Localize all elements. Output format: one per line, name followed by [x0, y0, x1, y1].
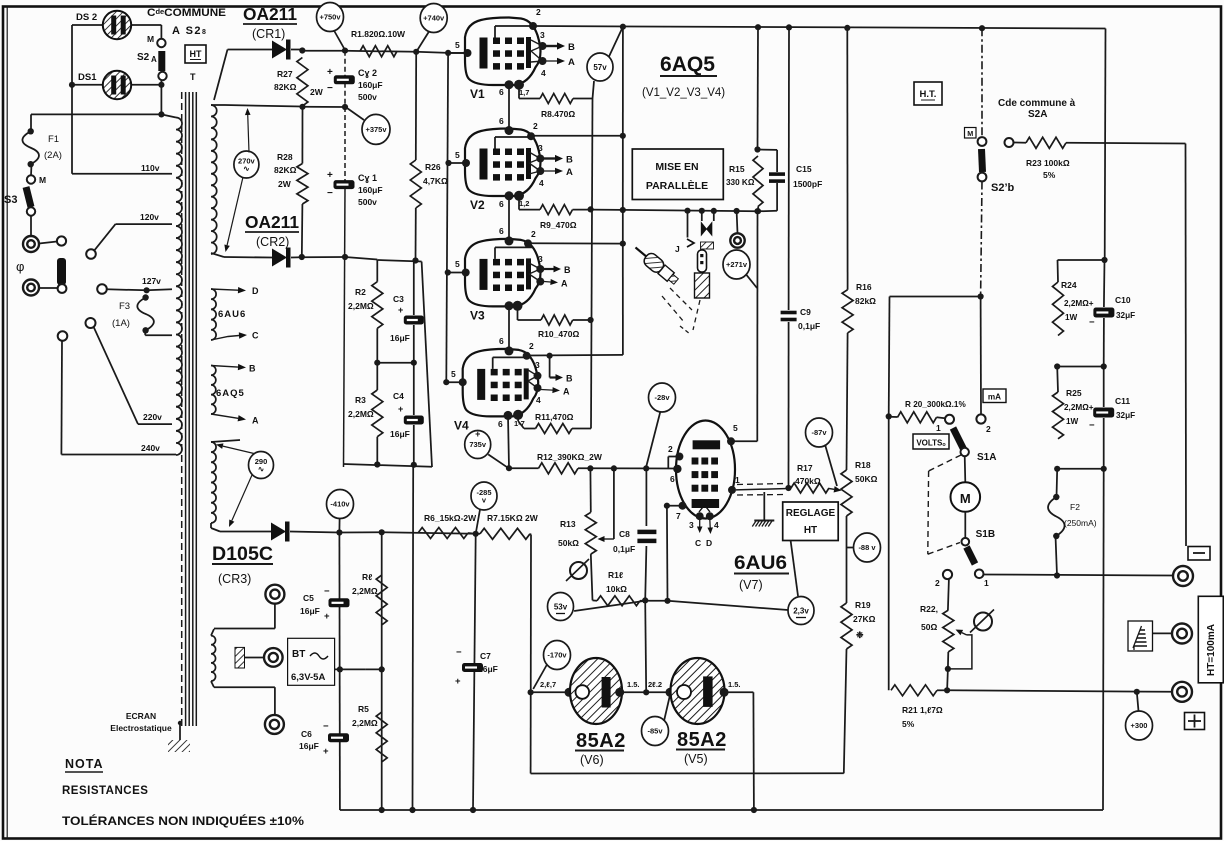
tube V7 cathode bar [692, 499, 720, 508]
resistor R6 [418, 528, 468, 539]
svg-text:Electrostatique: Electrostatique [110, 723, 172, 733]
pot R18 wiper arrow [829, 488, 834, 491]
wire box mid [377, 362, 414, 364]
svg-text:2: 2 [935, 578, 940, 588]
svg-text:❉: ❉ [856, 630, 864, 640]
boxed label HT [185, 45, 206, 63]
voltmeter bubble +740V [420, 4, 447, 33]
svg-text:NOTA: NOTA [65, 757, 104, 771]
tap wire 240v [60, 341, 63, 455]
capacitor C'1 [344, 107, 346, 181]
svg-text:C4: C4 [393, 391, 404, 401]
svg-text:160μF: 160μF [358, 185, 383, 195]
resistor R11 [517, 415, 519, 421]
svg-text:R3: R3 [355, 395, 366, 405]
resistor R15 [758, 149, 778, 151]
svg-text:82KΩ: 82KΩ [274, 165, 297, 175]
svg-text:2,ℓ,7: 2,ℓ,7 [540, 680, 556, 689]
plug J chevron [687, 211, 689, 238]
svg-text:3: 3 [538, 254, 543, 264]
svg-text:R12_390KΩ_2W: R12_390KΩ_2W [537, 452, 603, 462]
tap wire 120v [116, 223, 173, 225]
resistor R9 [518, 196, 520, 210]
svg-text:Rℓ: Rℓ [362, 572, 372, 582]
voltmeter bubble -410V [327, 490, 354, 519]
svg-text:1.5.: 1.5. [627, 680, 640, 689]
svg-text:16μF: 16μF [478, 664, 498, 674]
resistor R5 [376, 712, 387, 762]
svg-text:0,1μF: 0,1μF [613, 544, 635, 554]
capacitor C8 [645, 468, 647, 526]
svg-text:6AU6: 6AU6 [734, 553, 787, 574]
resistor R21 [888, 416, 890, 690]
svg-text:50KΩ: 50KΩ [855, 474, 878, 484]
tube V4 cathode bar [477, 369, 485, 400]
svg-text:120v: 120v [140, 212, 159, 222]
svg-text:R24: R24 [1061, 280, 1077, 290]
wire S2A to junctions [160, 80, 162, 114]
svg-text:5: 5 [455, 150, 460, 160]
arrow B [211, 366, 238, 368]
tap wire 127v [107, 289, 147, 290]
arrow D [211, 289, 238, 290]
svg-text:240v: 240v [141, 443, 160, 453]
resistor R12 [509, 467, 539, 469]
svg-text:(V7): (V7) [739, 578, 763, 592]
svg-text:R 20_300kΩ.1%: R 20_300kΩ.1% [905, 400, 966, 409]
wire box right side [422, 262, 432, 468]
svg-text:2,2MΩ: 2,2MΩ [352, 586, 378, 596]
svg-text:4: 4 [539, 178, 544, 188]
probe left [631, 242, 681, 287]
svg-text:R1ℓ: R1ℓ [608, 570, 623, 580]
voltmeter bubble -28V [649, 383, 676, 412]
svg-text:0,1μF: 0,1μF [798, 321, 820, 331]
wire HV1 to CR1 anode [214, 50, 228, 101]
capacitor C15 [776, 150, 778, 172]
resistor R24 [1057, 260, 1060, 282]
tube V3 pins 3 4 arrows B A [536, 265, 544, 273]
wire R13 bottom [591, 554, 593, 600]
ring contact J [736, 211, 739, 233]
svg-text:D105C: D105C [212, 544, 273, 565]
diode CR1 [272, 41, 287, 59]
svg-text:3: 3 [535, 360, 540, 370]
svg-text:A: A [568, 57, 575, 68]
svg-text:V3: V3 [470, 308, 485, 322]
svg-text:−: − [327, 188, 333, 199]
svg-text:R1.820Ω.10W: R1.820Ω.10W [351, 29, 406, 39]
tube V4 pins 6 1-7 bottom [504, 411, 513, 420]
svg-text:+: + [327, 170, 333, 181]
svg-text:R10_470Ω: R10_470Ω [538, 329, 580, 339]
lamp DS2 [103, 11, 131, 39]
wire BT top lead [211, 629, 214, 636]
switch S1A contact 2 mA [976, 414, 985, 423]
resistor R22 pot [943, 610, 954, 652]
resistor R18 pot [841, 470, 852, 516]
terminal ground [1172, 624, 1192, 644]
svg-text:V2: V2 [470, 198, 485, 212]
resistor R8 [518, 85, 520, 99]
svg-text:R25: R25 [1066, 388, 1082, 398]
fuse F3 [137, 298, 154, 331]
svg-text:3: 3 [540, 30, 545, 40]
svg-text:5%: 5% [1043, 170, 1056, 180]
tube V2 pins 3 4 arrows B A [536, 155, 544, 163]
svg-text:-88 v: -88 v [858, 543, 876, 552]
tube V5 85A2 [666, 688, 675, 697]
tube V7 pin 6 [673, 465, 681, 473]
wire C7 chain [473, 534, 476, 810]
resistor R27 [297, 58, 308, 107]
tube V3 grid top lead [494, 247, 496, 259]
svg-text:16μF: 16μF [300, 606, 320, 616]
tube V1 pins 6 1-7 [505, 80, 514, 89]
svg-text:+300: +300 [1131, 721, 1148, 730]
transformer core [181, 92, 183, 726]
wire F3 to coil [144, 330, 146, 335]
svg-text:HT: HT [190, 49, 202, 59]
heater ground hatched block [235, 647, 245, 668]
svg-text:R6_15kΩ-2W: R6_15kΩ-2W [424, 513, 477, 523]
tube V2 pin 5 [446, 162, 466, 164]
tube V2 grid dots [493, 149, 500, 156]
svg-text:2: 2 [529, 341, 534, 351]
tube V2 pin 2 [527, 132, 535, 140]
voltmeter bubble +271V [723, 250, 750, 279]
svg-text:53v: 53v [554, 602, 568, 611]
svg-text:2W: 2W [278, 179, 292, 189]
box MISE EN PARALLELE [632, 149, 723, 200]
svg-text:C9: C9 [800, 307, 811, 317]
resistor R19 [841, 603, 852, 649]
terminal ring upper-left [23, 236, 39, 252]
svg-text:4: 4 [536, 395, 541, 405]
transformer primary winding [176, 118, 182, 455]
tube V4 pin 6 top [505, 346, 514, 355]
tube V3 grid dots [493, 259, 500, 266]
wire left bus to DS1 [71, 25, 73, 174]
svg-text:6: 6 [499, 199, 504, 209]
svg-text:160μF: 160μF [358, 80, 383, 90]
voltmeter bubble 2,3v [788, 597, 814, 625]
svg-text:S2A: S2A [1028, 109, 1047, 120]
wire C5 chain [338, 534, 341, 811]
contact circle mid-left [57, 236, 66, 245]
svg-text:(V5): (V5) [684, 752, 708, 766]
wire DS2 top [72, 24, 103, 26]
switch S1B contact 2 [943, 570, 952, 579]
svg-text:OA211: OA211 [245, 212, 299, 232]
svg-text:1,7: 1,7 [519, 88, 529, 97]
svg-text:M: M [39, 175, 46, 185]
svg-text:DS1: DS1 [78, 72, 97, 83]
voltmeter bubble 53v [548, 593, 574, 621]
diode D105C [271, 523, 286, 541]
voltmeter bubble -87V [806, 418, 833, 447]
svg-text:57v: 57v [593, 63, 607, 72]
wire cathode bus V2-V3 [508, 196, 510, 239]
wire box bottom [344, 464, 433, 467]
svg-text:82kΩ: 82kΩ [855, 296, 876, 306]
svg-text:4: 4 [714, 520, 719, 530]
wire R4 chain [381, 532, 383, 810]
svg-text:PARALLÈLE: PARALLÈLE [646, 179, 708, 192]
svg-text:5: 5 [455, 40, 460, 50]
svg-text:+750v: +750v [319, 13, 341, 22]
svg-text:(250mA): (250mA) [1064, 518, 1097, 528]
svg-text:R18: R18 [855, 460, 871, 470]
svg-text:R23 100kΩ: R23 100kΩ [1026, 158, 1070, 168]
tube V1 pin 5 [449, 52, 468, 54]
capacitor C7 [462, 663, 483, 672]
tube V4 anode bar [524, 368, 529, 399]
screw adjust R13 [570, 562, 587, 579]
wire top bus [533, 26, 1106, 29]
svg-text:2,2MΩ: 2,2MΩ [348, 301, 374, 311]
resistor R20 [886, 413, 892, 419]
svg-text:2: 2 [986, 424, 991, 434]
wire R25 C11 junction [1057, 468, 1104, 470]
svg-text:M: M [147, 34, 154, 44]
tube V2 pin 6 top [505, 126, 514, 135]
wire S2b bus top [981, 28, 983, 137]
wire 85A2 bottom loop [531, 772, 844, 774]
svg-text:735v: 735v [469, 440, 487, 449]
svg-text:−: − [327, 83, 333, 94]
wire cathode bus V1-V2 [508, 85, 510, 129]
terminal ring BT top [265, 585, 284, 604]
voltmeter bubble -88V [854, 533, 881, 562]
svg-text:S2: S2 [137, 52, 150, 63]
tube V4 pin 5 [446, 381, 462, 383]
switch S1A contact 1 [945, 415, 954, 424]
transformer HV secondary 2 [211, 442, 216, 523]
svg-text:Cde commune à: Cde commune à [998, 98, 1076, 109]
svg-text:R7.15KΩ 2W: R7.15KΩ 2W [487, 513, 539, 523]
svg-text:6,3V-5A: 6,3V-5A [291, 672, 325, 683]
svg-text:(V6): (V6) [580, 753, 604, 767]
switch linkage dashed [929, 455, 961, 471]
svg-text:+: + [327, 67, 333, 78]
svg-text:1: 1 [936, 423, 941, 433]
svg-text:H.T.: H.T. [920, 89, 937, 100]
svg-text:C5: C5 [303, 593, 314, 603]
svg-text:-28v: -28v [654, 393, 670, 402]
transformer 6AU6 heater winding [211, 289, 216, 340]
wire HV1 top lead [211, 104, 225, 106]
svg-text:TOLÉRANCES NON INDIQUÉES ±: TOLÉRANCES NON INDIQUÉES ±10% [62, 815, 304, 828]
tube V7 pin 5 [727, 437, 735, 445]
svg-text:10kΩ: 10kΩ [606, 584, 627, 594]
svg-text:6: 6 [670, 474, 675, 484]
svg-text:+: + [323, 746, 329, 757]
svg-text:6AQ5: 6AQ5 [660, 53, 715, 76]
arrow C [211, 336, 239, 341]
capacitor C5 [329, 598, 350, 607]
resistor R17 [791, 483, 829, 493]
svg-text:HT=100mA: HT=100mA [1206, 624, 1217, 676]
wire BT to chain [335, 668, 366, 670]
wire heater node [365, 668, 381, 670]
svg-text:−: − [1089, 420, 1095, 431]
svg-text:3: 3 [689, 520, 694, 530]
diode CR2 [272, 249, 287, 267]
svg-text:MISE EN: MISE EN [655, 161, 698, 173]
voltmeter bubble 290V [249, 452, 274, 479]
wire R14 junction down [645, 600, 646, 692]
terminal ring lower-left [23, 280, 39, 296]
svg-text:Cɣ 1: Cɣ 1 [358, 173, 377, 183]
resistor R16 [842, 290, 853, 333]
svg-text:A: A [566, 167, 573, 178]
tube V2 grid top lead [494, 137, 496, 149]
resistor R3 [372, 390, 383, 437]
capacitor C3 [413, 261, 415, 315]
svg-text:F1: F1 [48, 134, 59, 145]
svg-text:110v: 110v [141, 163, 160, 173]
svg-text:(1A): (1A) [112, 318, 130, 329]
svg-text:−: − [1089, 317, 1095, 328]
tap wire 110v [72, 173, 172, 175]
svg-text:330 KΩ: 330 KΩ [726, 178, 755, 187]
svg-text:6: 6 [499, 87, 504, 97]
switch S1B [962, 538, 970, 546]
wire V4 B tie [549, 356, 551, 378]
svg-text:2,2MΩ+: 2,2MΩ+ [1064, 299, 1094, 308]
transformer 6AQ5 heater winding [211, 366, 216, 415]
svg-text:R2: R2 [355, 287, 366, 297]
wire S2b bus to mA [980, 297, 982, 415]
svg-text:D: D [706, 538, 712, 548]
wire R8-R11 right bus [591, 99, 593, 429]
wire pin7 riser [666, 506, 669, 601]
svg-text:5%: 5% [902, 719, 915, 729]
wire C4 chain down [412, 465, 415, 810]
svg-text:mA: mA [988, 393, 1001, 402]
svg-text:D: D [252, 286, 259, 296]
svg-text:85A2: 85A2 [677, 729, 727, 751]
svg-text:R15: R15 [729, 164, 745, 174]
wire R16-R19 bus [846, 28, 848, 290]
tube V7 pin 7 [679, 502, 687, 510]
svg-text:φ: φ [16, 259, 24, 274]
pot R13 wiper [605, 538, 614, 540]
svg-text:(V1_V2_V3_V4): (V1_V2_V3_V4) [642, 87, 725, 99]
svg-text:+: + [455, 676, 461, 687]
fuse F1 [30, 114, 32, 131]
svg-text:∿: ∿ [243, 164, 250, 173]
wire R9 to J row [591, 210, 758, 212]
svg-text:RESISTANCES: RESISTANCES [62, 785, 148, 797]
svg-text:+: + [324, 611, 330, 622]
tube V2 cathode bar [480, 149, 488, 180]
wire CR1 top bus [302, 50, 345, 52]
voltmeter bubble +750V [317, 3, 344, 32]
svg-text:500v: 500v [358, 92, 377, 102]
svg-text:-87v: -87v [811, 428, 827, 437]
svg-text:REGLAGE: REGLAGE [786, 508, 836, 519]
svg-text:16μF: 16μF [390, 333, 410, 343]
screw adjust R22 [974, 613, 992, 631]
tube V1 cathode bar [480, 38, 488, 69]
selector contact 220v [86, 318, 96, 328]
svg-text:R11,470Ω: R11,470Ω [535, 412, 574, 422]
wire V7 pin1 shielded [736, 489, 789, 490]
svg-text:470kΩ: 470kΩ [795, 476, 821, 486]
tube V3 pins 6 1-7 bottom [505, 301, 514, 310]
svg-text:J: J [675, 244, 680, 254]
svg-text:-170v: -170v [547, 651, 567, 660]
svg-text:220v: 220v [143, 412, 162, 422]
svg-text:R17: R17 [797, 463, 813, 473]
wire V5 right leg [724, 691, 753, 693]
svg-text:C7: C7 [480, 651, 491, 661]
svg-text:C10: C10 [1115, 295, 1131, 305]
svg-text:S3: S3 [4, 194, 17, 206]
resistor R28 [301, 107, 303, 164]
boxed label M small [965, 128, 977, 139]
svg-text:S1B: S1B [976, 529, 995, 540]
svg-text:ECRAN: ECRAN [126, 711, 156, 721]
chassis ground box [1128, 621, 1153, 651]
capacitor C11 [1103, 367, 1105, 408]
svg-text:F2: F2 [1070, 502, 1080, 512]
wire pin2 bus vertical [622, 27, 624, 244]
svg-text:R8.470Ω: R8.470Ω [541, 109, 575, 119]
wire primary top [31, 113, 161, 115]
svg-text:R27: R27 [277, 69, 293, 79]
svg-text:1: 1 [984, 578, 989, 588]
wire 85A2 left leg [528, 689, 534, 695]
svg-text:6AQ5: 6AQ5 [216, 388, 245, 399]
main bottom rail [340, 809, 1103, 811]
svg-text:5: 5 [451, 369, 456, 379]
svg-text:1,2: 1,2 [519, 199, 529, 208]
svg-text:5: 5 [733, 423, 738, 433]
svg-text:HT: HT [804, 525, 817, 536]
resistor R2 [376, 260, 378, 282]
selector contact 120v [86, 249, 96, 259]
capacitor C4 [413, 363, 415, 415]
probe right [698, 250, 707, 272]
pot R22 wiper [962, 633, 967, 635]
svg-text:(CR3): (CR3) [218, 572, 251, 586]
svg-text:16μF: 16μF [390, 429, 410, 439]
svg-text:82KΩ: 82KΩ [274, 82, 297, 92]
svg-text:1W: 1W [1066, 417, 1079, 426]
wire pin5 bus [446, 53, 448, 382]
terminal minus [1173, 566, 1193, 586]
svg-text:127v: 127v [142, 276, 161, 286]
svg-text:R9_470Ω: R9_470Ω [540, 220, 577, 230]
switch S1B contact 1 [975, 570, 984, 579]
svg-text:B: B [566, 374, 573, 384]
tube V3 pin 2 [524, 239, 532, 247]
svg-text:50Ω: 50Ω [921, 622, 937, 632]
svg-text:6: 6 [499, 116, 504, 126]
transformer HV secondary 1 [211, 105, 217, 254]
svg-text:6: 6 [499, 226, 504, 236]
svg-text:-410v: -410v [330, 500, 350, 509]
svg-text:(2A): (2A) [44, 150, 62, 161]
svg-text:2: 2 [531, 229, 536, 239]
voltmeter bubble -170v [544, 641, 571, 670]
svg-text:DS 2: DS 2 [76, 12, 97, 23]
tube V3 cathode bar [480, 259, 488, 290]
selector contact 127v [97, 284, 107, 294]
